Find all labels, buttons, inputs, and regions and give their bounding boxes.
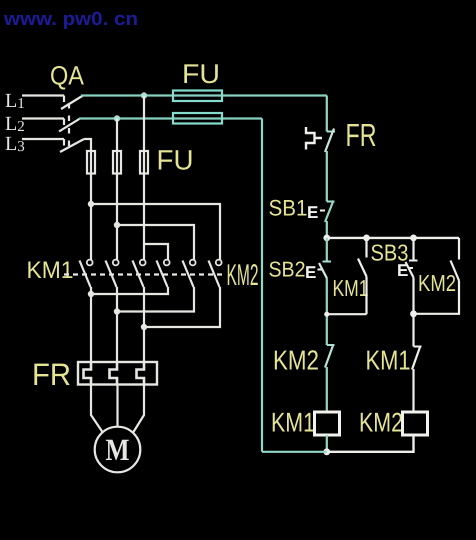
wire KM2 coil to bottom bar <box>327 435 414 452</box>
FR heater element 1 <box>84 362 92 385</box>
wire KM1 coil to bottom <box>326 435 328 452</box>
wire L1 phase bus (cyan) <box>81 94 327 96</box>
node feed bar 2 junction <box>114 222 120 228</box>
wire output bar contact5 <box>117 287 194 312</box>
node bottom join <box>323 448 330 455</box>
thermal contact FR (NC) <box>327 131 335 133</box>
KM1 main contact 3 <box>140 260 146 266</box>
coil KM1 <box>315 412 340 435</box>
svg-text:KM1: KM1 <box>27 257 74 284</box>
motor M <box>95 427 141 473</box>
wire feed bar to KM2 contact 5 <box>117 225 194 260</box>
svg-text:FU: FU <box>182 59 220 89</box>
wire L3 input <box>22 139 64 146</box>
svg-text:KM1: KM1 <box>271 408 315 438</box>
wire contact 2 bottom <box>116 287 118 362</box>
svg-text:SB2: SB2 <box>269 258 306 282</box>
contact KM1 aux (NO) <box>365 238 367 258</box>
wire feed bar to KM2 contact 4 <box>144 244 168 260</box>
wire L3 to fuse column <box>84 139 91 152</box>
svg-text:FR: FR <box>346 117 377 153</box>
wire phase drop 2 (from L2 tap) <box>116 119 118 261</box>
svg-text:E: E <box>307 203 318 222</box>
wire L2 input <box>22 119 64 126</box>
KM2 main contact 5 <box>190 260 196 266</box>
node L1 tap <box>141 92 147 98</box>
fuse FU drop 2 <box>113 151 121 174</box>
contact KM2 aux (NO) right loop <box>458 238 460 260</box>
fuse FU drop 1 <box>87 151 95 174</box>
node SB2 branch join <box>324 312 329 317</box>
pushbutton SB2 (NO) blade <box>323 261 332 263</box>
svg-text:E: E <box>305 263 316 282</box>
wire SB3 branch lower <box>412 278 414 314</box>
wire KM1-aux bottom bar <box>327 313 367 315</box>
wire rail SB2 upper <box>326 238 328 262</box>
wire control top bar <box>327 237 459 239</box>
wire control rail B (from L2) <box>262 119 327 452</box>
fuse FU line L2 <box>173 113 222 124</box>
svg-text:FR: FR <box>32 357 71 392</box>
switch QA pole 2 blade <box>59 119 80 132</box>
node output bar 2 <box>114 308 120 314</box>
contactor linkage dashed line <box>64 273 224 275</box>
wire rail SB2 lower <box>326 279 328 346</box>
wire contact 3 bottom <box>143 287 145 362</box>
wire output bar contact4 <box>91 287 168 294</box>
switch QA pole 1 blade <box>61 96 83 110</box>
wire SB3 branch upper <box>412 238 414 261</box>
wire control rail A (from L1) <box>326 96 328 132</box>
wire motor lead 1 <box>91 385 104 434</box>
node output bar 3 <box>141 324 147 330</box>
FR heater element 3 <box>137 362 145 385</box>
svg-text:KM2: KM2 <box>418 270 456 296</box>
svg-text:M: M <box>106 432 130 467</box>
FR heater element 2 <box>110 362 118 385</box>
switch QA pole 3 blade <box>60 139 84 152</box>
node SB3 branch join <box>410 310 417 317</box>
coil KM2 <box>403 412 428 435</box>
svg-text:KM2: KM2 <box>273 345 319 376</box>
wire L2 phase bus (cyan) <box>79 117 262 119</box>
contact KM2 interlock (NC) <box>327 344 335 346</box>
svg-text:SB1: SB1 <box>269 196 308 221</box>
wire phase drop 1 (from L3) <box>90 152 92 260</box>
KM1 main contact 2 <box>113 260 119 266</box>
wire contact 1 bottom <box>90 287 92 362</box>
wire motor lead 2 <box>116 385 118 429</box>
fuse FU drop 3 <box>140 151 148 174</box>
svg-text:KM2: KM2 <box>227 259 259 292</box>
wire L1 input <box>22 96 64 103</box>
node output bar 1 <box>88 291 94 297</box>
svg-text:KM1: KM1 <box>333 275 369 301</box>
wire phase drop 3 (from L1 tap) <box>143 96 145 261</box>
switch QA linkage dashed <box>68 103 70 149</box>
svg-text:KM2: KM2 <box>359 408 403 438</box>
wire motor lead 3 <box>133 385 145 434</box>
KM2 main contact 6 <box>216 260 222 266</box>
contact KM1 interlock (NC) <box>412 314 414 347</box>
node SB3 branch tap <box>410 235 417 242</box>
thermal relay FR box <box>78 362 157 385</box>
svg-text:FU: FU <box>157 145 194 176</box>
fuse FU line L1 <box>173 91 222 102</box>
pushbutton SB1 (NC) blade <box>327 201 335 203</box>
node feed bar 1 junction <box>88 201 94 207</box>
wire rail A lower <box>326 221 328 238</box>
svg-text:www. pw0. cn: www. pw0. cn <box>3 9 138 30</box>
wire output bar contact6 <box>144 287 220 327</box>
wire rail A middle <box>326 151 328 202</box>
node L2 tap <box>114 115 120 121</box>
node control top left <box>323 235 330 242</box>
svg-text:QA: QA <box>50 61 84 91</box>
KM1 main contact 1 <box>87 260 93 266</box>
svg-text:KM1: KM1 <box>366 345 411 376</box>
wire feed bar to KM2 contact 6 <box>91 204 220 260</box>
KM2 main contact 4 <box>164 260 170 266</box>
node KM1 aux tap <box>363 235 370 242</box>
pushbutton SB3 (NO) blade <box>409 260 418 262</box>
FR trip actuator bracket <box>306 127 322 150</box>
